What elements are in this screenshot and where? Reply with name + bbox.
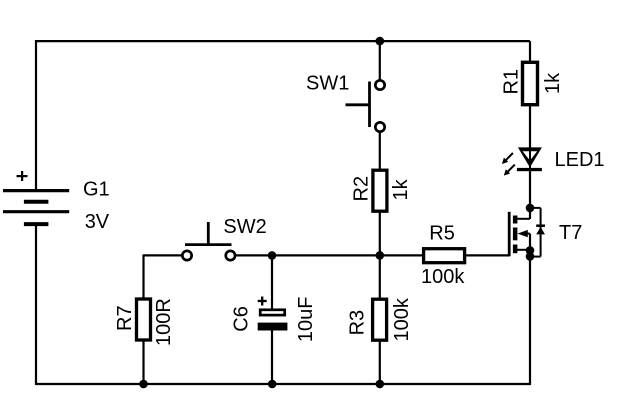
svg-text:G1: G1 [83,179,110,201]
svg-text:R1: R1 [501,69,523,95]
wire SW1 to R2 [379,132,381,170]
junction bottom R7 [139,380,148,389]
wire R2 to mid junction [379,212,381,256]
svg-text:100R: 100R [153,298,175,346]
battery G1 [3,171,69,224]
pushbutton SW1 [346,80,385,131]
wire C6 top [271,255,273,309]
svg-text:C6: C6 [230,306,252,332]
transistor T7 (n-MOSFET with body diode) [509,208,545,257]
junction top rail / SW1 [376,37,385,46]
junction C6 tap [268,251,277,260]
svg-text:SW1: SW1 [306,72,349,94]
wire R1 to LED1 [529,105,531,149]
svg-text:10uF: 10uF [295,297,317,343]
resistor R1 [523,62,538,104]
wire left rail lower [35,224,37,385]
svg-text:3V: 3V [85,211,110,233]
junction bottom R3 [376,380,385,389]
svg-text:T7: T7 [559,222,582,244]
capacitor C6 [258,297,288,331]
wire LED1 to T7 drain [529,171,531,219]
pushbutton SW2 [182,222,235,260]
wire bottom rail [36,383,530,385]
junction T7 drain / diode [526,204,535,213]
resistor R2 [373,170,387,211]
wire SW2 left [144,254,183,256]
junction mid (R2/R3/R5/SW2) [376,251,385,260]
wire R3 to bottom rail [379,341,381,384]
svg-text:1k: 1k [390,178,412,200]
resistor R5 [424,249,465,263]
wire mid junction to R3 [379,255,381,299]
wire top rail [36,40,530,42]
svg-text:SW2: SW2 [223,216,266,238]
wire C6 bottom [271,330,273,384]
svg-text:R2: R2 [351,176,373,202]
svg-text:100k: 100k [391,297,413,341]
svg-text:1k: 1k [542,72,564,94]
resistor R3 [373,299,387,340]
wire SW1 top [379,41,381,80]
svg-text:R3: R3 [346,310,368,336]
wire SW2 right to mid junction [235,254,380,256]
junction bottom C6 [268,380,277,389]
LED LED1 [502,147,542,175]
wire mid junction to R5 [380,254,423,256]
wire R7 to bottom rail [142,341,144,384]
svg-text:R7: R7 [114,305,136,331]
svg-text:LED1: LED1 [555,149,605,171]
wire top rail to R1 [529,41,531,62]
svg-text:R5: R5 [429,222,455,244]
wire R5 to T7 gate [465,254,510,256]
junction T7 diode bottom [526,252,535,261]
wire left rail upper [35,40,37,190]
wire SW2 left down to R7 [142,254,144,299]
wire T7 source to bottom rail [529,234,531,385]
resistor R7 [137,299,151,340]
svg-text:100k: 100k [421,266,465,288]
junction T7 source [526,246,535,255]
